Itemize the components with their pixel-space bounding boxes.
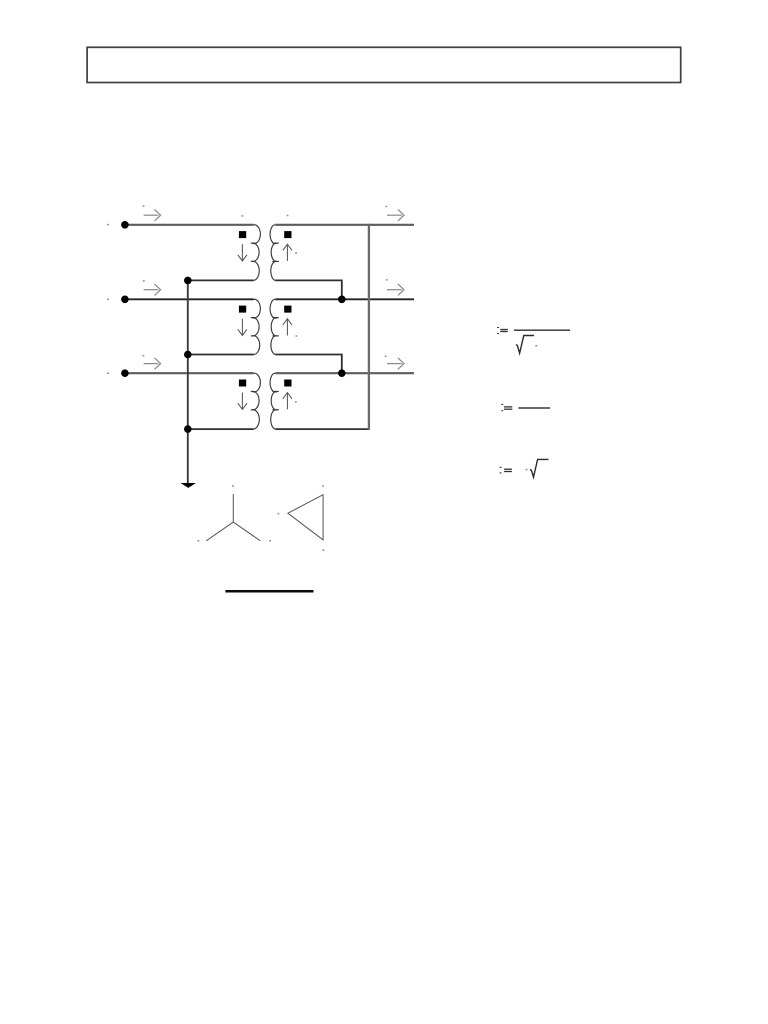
node input terminal 3 — [121, 369, 129, 377]
label speck wye top — [232, 485, 234, 487]
node neutral tap 2 — [184, 351, 192, 359]
label speck phase B terminal — [107, 299, 109, 301]
node delta junction b — [338, 296, 346, 304]
input current arrow phase 1 — [144, 214, 159, 216]
formula 2 assignment := — [501, 404, 503, 405]
wire delta bus to line a — [368, 224, 370, 430]
ground — [181, 483, 196, 488]
formula 1 fraction bar — [514, 329, 570, 331]
formula 3 assignment := — [500, 467, 502, 468]
wire secondary 2 to node c — [275, 355, 342, 374]
label speck output arrow 1 — [385, 206, 387, 208]
formula 3 square root — [530, 459, 549, 477]
output current arrow phase 3 — [387, 363, 402, 365]
title box — [87, 47, 681, 82]
output current arrow phase 2 — [387, 289, 402, 291]
label speck delta top — [322, 485, 324, 487]
input current arrow phase 2 — [144, 289, 159, 291]
node neutral tap 1 — [184, 277, 192, 285]
output current arrow phase 1 — [387, 214, 402, 216]
transformer T2 secondary winding — [270, 299, 279, 354]
wire secondary 3 bottom — [275, 428, 369, 430]
label speck phase C terminal — [107, 373, 109, 375]
wire primary 3 return — [188, 428, 254, 430]
wire secondary 1 to node b — [275, 280, 342, 299]
transformer T2 primary polarity square — [239, 306, 246, 313]
transformer T1 secondary polarity square — [284, 231, 291, 238]
label speck T1 primary dot — [241, 215, 243, 217]
node input terminal 2 — [121, 296, 129, 304]
wire phase a output — [275, 224, 414, 226]
transformer T3 secondary winding — [270, 373, 279, 429]
delta connection symbol — [288, 495, 323, 540]
wire phase c output — [275, 372, 414, 374]
label speck input arrow 1 — [143, 205, 145, 207]
wire neutral bus — [187, 280, 189, 483]
transformer T2 secondary current arrow (up) — [286, 319, 288, 336]
formula 1 square root — [516, 336, 534, 354]
transformer T1 primary polarity square — [239, 231, 246, 238]
transformer T1 secondary current arrow (up) — [286, 244, 288, 261]
transformer T2 secondary polarity square — [284, 306, 291, 313]
transformer T2 primary current arrow (down) — [241, 319, 243, 336]
label speck wye right — [269, 540, 271, 542]
formula 1 assignment := — [497, 327, 499, 328]
label speck delta left — [277, 513, 279, 515]
wire phase B input — [125, 298, 254, 300]
label speck T2 secondary arrow — [296, 335, 298, 337]
label speck T1 secondary arrow — [295, 252, 297, 254]
transformer T1 primary winding — [251, 225, 261, 281]
label speck output arrow 3 — [385, 355, 387, 357]
heading underline — [225, 590, 313, 593]
wire phase A input — [125, 224, 254, 226]
transformer T3 primary current arrow (down) — [241, 393, 243, 410]
node neutral tap 3 — [184, 425, 192, 433]
label speck T3 secondary arrow — [295, 401, 297, 403]
label speck phase A terminal — [107, 224, 109, 226]
wire phase C input — [125, 372, 254, 374]
wye connection symbol — [206, 494, 260, 541]
label speck input arrow 2 — [143, 280, 145, 282]
transformer T1 secondary winding — [270, 225, 279, 281]
label speck delta bottom — [322, 549, 324, 551]
transformer T3 primary polarity square — [239, 380, 246, 387]
label speck formula 1 — [535, 345, 537, 347]
transformer T2 primary winding — [251, 299, 261, 354]
node input terminal 1 — [121, 221, 129, 229]
transformer T1 primary current arrow (down) — [241, 244, 243, 261]
transformer T3 secondary current arrow (up) — [286, 393, 288, 410]
input current arrow phase 3 — [144, 363, 159, 365]
transformer T3 primary winding — [251, 373, 261, 429]
wire primary 1 return — [188, 279, 254, 281]
label speck wye left — [197, 540, 199, 542]
label speck output arrow 2 — [386, 279, 388, 281]
label speck formula 3 — [526, 469, 528, 471]
formula 2 value bar — [518, 407, 550, 409]
node delta junction c — [338, 369, 346, 377]
wire primary 2 return — [188, 354, 254, 356]
wire phase b output — [275, 298, 414, 300]
label speck input arrow 3 — [142, 355, 144, 357]
transformer T3 secondary polarity square — [284, 380, 291, 387]
label speck T1 secondary dot — [287, 215, 289, 217]
